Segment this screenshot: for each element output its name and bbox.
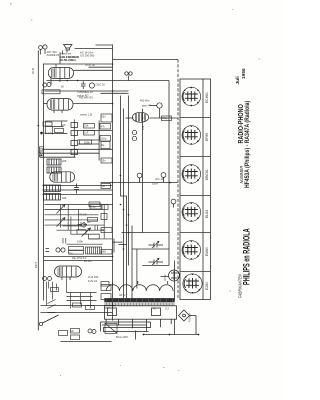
wire: bus y80 (47, 80, 170, 82)
wire: mixer out (74, 103, 113, 105)
svg-text:OSC 16: OSC 16 (96, 83, 106, 87)
tube U2 EF89 socket (182, 125, 201, 144)
small box k8 (162, 116, 172, 121)
wire: dash-dot boundary (177, 60, 179, 300)
svg-text:AARDE 25: AARDE 25 (47, 53, 60, 57)
svg-text:1nF: 1nF (84, 131, 89, 135)
tube U1 ECH81 socket (182, 87, 201, 106)
wire: V1 left lead (50, 77, 52, 86)
svg-text:EL84: EL84 (205, 210, 209, 218)
svg-text:1n5: 1n5 (62, 124, 67, 127)
wire: node stubs to AVC bus (140, 178, 174, 208)
resistor R1 box (84, 124, 95, 129)
wire: tube-column feed rail (113, 59, 179, 61)
svg-text:EZ80: EZ80 (205, 282, 209, 290)
terminal gramo b (92, 330, 96, 334)
switch and misc cluster strokes (38, 63, 200, 335)
transformer core (laminations) (104, 298, 174, 302)
node circled 6a (132, 130, 136, 134)
svg-text:100p: 100p (162, 117, 168, 120)
small box k5 (101, 184, 111, 189)
title block text (235, 68, 252, 298)
potentiometer arrow P2 (57, 218, 66, 227)
wire: right rail h (174, 261, 176, 301)
node PHILIPS en RADIOLA maker (238, 228, 252, 298)
wire: bottom link (144, 334, 199, 336)
wire: bus y256 (44, 256, 113, 258)
terminal P2 (61, 248, 65, 252)
resistor R12 box (73, 303, 82, 307)
terminal G2 (47, 83, 51, 87)
wire: top corner link (96, 44, 113, 46)
terminal phono input (39, 322, 42, 325)
wire: bus y189 left (43, 189, 113, 191)
wire: mixer left lead (44, 103, 48, 105)
svg-text:EM80: EM80 (205, 247, 209, 256)
wire: bus y312 (41, 312, 113, 314)
wire: bottom row link (61, 341, 112, 343)
node dot and label (41, 132, 43, 134)
tube U4 EL84 socket (182, 202, 201, 221)
node circled 1 (89, 83, 94, 88)
wire: top bus (44, 63, 113, 65)
ganged capacitor chain (trimmers) (71, 123, 78, 128)
svg-text:16-50-200m: 16-50-200m (60, 58, 77, 62)
resistor R5 box (100, 136, 111, 142)
capacitor C22 (95, 226, 98, 231)
wire: y143 row (78, 143, 100, 145)
capacitor C1 (trimmer) (81, 81, 86, 89)
node circled 2 (157, 103, 162, 108)
terminal gramo a (88, 329, 92, 333)
svg-text:220V: 220V (104, 307, 110, 310)
tube V1 oscillator (oval) (48, 64, 73, 82)
node circled w (82, 223, 86, 227)
svg-text:465: 465 (62, 159, 67, 163)
potentiometer arrow tone (82, 228, 91, 237)
wire: right rail g (168, 81, 170, 266)
node circled 5 (171, 199, 176, 204)
wire: stub below osc pair (128, 76, 130, 81)
wire: AF row y243.7 (67, 243, 103, 245)
coil L1 box (47, 159, 61, 165)
component boxes with values (42, 90, 172, 342)
resistor R4 box (80, 140, 92, 144)
tube socket diagrams column (182, 87, 202, 294)
wire: secondary taps down (106, 319, 171, 331)
capacitor C8 (74, 184, 79, 194)
resistor R11 box (71, 335, 80, 340)
svg-text:0,1: 0,1 (87, 220, 91, 224)
resistor R8 box (101, 250, 112, 255)
tube U6 EZ80 socket (183, 274, 202, 294)
wire: osc out (74, 69, 113, 71)
svg-text:100k: 100k (84, 141, 90, 145)
capacitor C20 (78, 222, 88, 227)
choke box hatched (86, 247, 102, 254)
svg-text:30,41: 30,41 (31, 67, 35, 74)
wire: cluster lines waveband (67, 293, 97, 309)
resistor R6 box (89, 202, 100, 207)
wire: AF cluster verticals (61, 205, 105, 239)
terminal pair Q1 (43, 277, 47, 281)
value labels (greeked) (31, 50, 192, 339)
wire: AVC bus (101, 182, 178, 184)
svg-text:5k6: 5k6 (102, 250, 107, 254)
tube V2 mixer (oval) (47, 99, 73, 114)
transformer primary winding arcs (106, 285, 173, 291)
speck (10, 3, 12, 5)
wire: heater run (174, 320, 176, 335)
wire: center rail b (121, 96, 127, 300)
wire: antenna lead (41, 49, 63, 54)
node RADIO-PHONO title (237, 101, 251, 188)
svg-text:GR: GR (70, 330, 74, 333)
wire: y130 row (78, 130, 113, 132)
transformer secondary comb winding (105, 303, 174, 306)
wire: main left rail (37, 51, 39, 331)
mains transformer T1 (101, 281, 197, 335)
small box k10 (101, 294, 111, 300)
capacitor C12 (variable) (149, 243, 164, 248)
svg-text:EF89: EF89 (205, 133, 209, 141)
tube U3 EBC81 socket (182, 164, 201, 183)
small box k6 (101, 214, 107, 220)
tube column labels (205, 92, 209, 290)
resistor R15 box (102, 205, 108, 210)
fuse stack (40, 147, 44, 153)
terminal A (39, 46, 43, 50)
resistor R2 box (84, 131, 95, 136)
wire: zigzag steps (113, 239, 127, 253)
svg-text:53n: 53n (102, 116, 107, 119)
svg-text:ECH81: ECH81 (205, 92, 209, 103)
svg-text:2x AT 20: 2x AT 20 (85, 63, 96, 67)
wire: text col divider (60, 50, 67, 64)
node circled 6b (132, 136, 136, 140)
wire: IF line left (126, 117, 134, 119)
wire: transformer output loops (101, 322, 151, 332)
tube V3 IF amp (small oval) (132, 112, 148, 122)
small box k7 (101, 228, 112, 233)
node circled 4 (161, 173, 166, 178)
coil L4 box (44, 194, 61, 201)
RF coil assemblies left side (44, 120, 91, 237)
tube V4 detector (oval) (50, 172, 75, 182)
svg-text:NUMMER: NUMMER (239, 166, 244, 184)
small box k3 (101, 142, 110, 149)
resistor R13 box (86, 306, 95, 310)
output transformer box (105, 323, 117, 333)
wire: center rail e (131, 226, 133, 300)
svg-text:Juli: Juli (235, 76, 241, 84)
wire: y139 row (78, 139, 100, 141)
svg-text:gram 47: gram 47 (142, 105, 151, 108)
node circled osc pair (125, 72, 128, 75)
wire: to circled 2 (150, 106, 160, 119)
resistor R17 box (59, 331, 68, 336)
wire: center rail d (128, 96, 130, 266)
terminal marks (46, 249, 50, 252)
terminal pair G1 (43, 83, 47, 87)
terminal pair P1 (56, 248, 60, 252)
wire: volume/tone rows (45, 205, 113, 231)
resistor R19 box (89, 234, 100, 239)
node circled 3 (137, 173, 142, 178)
small box k4 (101, 158, 112, 163)
wire: bus y185 left (43, 185, 113, 187)
svg-text:B2 450: B2 450 (84, 260, 92, 263)
svg-text:47k: 47k (101, 125, 106, 129)
svg-text:afd 310: afd 310 (44, 132, 53, 135)
wire: bus y90 (45, 90, 129, 92)
tube U5 EM80 socket (182, 240, 201, 259)
svg-text:AB 12: AB 12 (119, 294, 126, 297)
tube column frame (180, 79, 211, 300)
coil L2 box (47, 167, 61, 173)
wire: below output tube (47, 278, 67, 306)
svg-text:100k: 100k (77, 240, 83, 244)
svg-text:1956: 1956 (241, 68, 247, 79)
svg-text:TRIMMER 2n: TRIMMER 2n (77, 90, 93, 94)
svg-text:452 kHz: 452 kHz (140, 99, 150, 103)
resistor Rb box (55, 129, 64, 133)
wire: vertical x98.6 (98, 121, 100, 161)
wire: bus y194 left (43, 194, 113, 196)
svg-text:50μ: 50μ (102, 229, 107, 232)
resistor R16 box (88, 218, 98, 222)
svg-text:53SA: 53SA (152, 183, 158, 186)
wire: selector drop (190, 316, 197, 335)
resistor Ra box (43, 122, 52, 126)
small box k1 (42, 90, 60, 94)
coil L3 box (44, 185, 61, 192)
svg-text:47k: 47k (141, 125, 145, 130)
node Juli 1956 date (235, 68, 247, 85)
transformer tap label box a (108, 308, 117, 316)
potentiometer arrow P1 (57, 205, 66, 214)
wire: vertical x136.4 (136, 249, 138, 289)
svg-text:50c/s 220V: 50c/s 220V (116, 336, 128, 339)
svg-text:U412: U412 (38, 151, 42, 158)
wire: bus y260 (44, 260, 113, 262)
svg-text:0,1μ: 0,1μ (91, 205, 97, 209)
wire: y66.7 link (89, 66, 113, 68)
wire: det cluster (46, 121, 68, 135)
input terminals and antenna (39, 45, 176, 334)
wire: AF cluster extra rows (63, 226, 113, 239)
wire: antenna top link (75, 48, 113, 50)
wire: bus y305 (41, 305, 116, 307)
wire: center rail c (123, 109, 125, 300)
svg-text:weerst 2,2k: weerst 2,2k (80, 114, 93, 117)
wire: central vertical bus (112, 45, 114, 321)
resistor R9 box (101, 282, 109, 287)
small box k9 (101, 285, 111, 291)
wire: center rail f (142, 109, 144, 233)
wire: primary tap stubs (113, 281, 168, 286)
svg-text:220p: 220p (101, 137, 107, 141)
svg-text:22k: 22k (84, 124, 89, 128)
wire: bus y93 (101, 92, 129, 94)
wire: secondary left rail (43, 64, 45, 301)
wire: IF line (150, 117, 178, 119)
wire: bus y248 (132, 248, 169, 250)
svg-text:465: 465 (62, 196, 67, 200)
voltage selector diamond (179, 310, 190, 321)
resistor R18 box (77, 230, 86, 235)
svg-text:PHILIPS en RADIOLA: PHILIPS en RADIOLA (241, 228, 252, 285)
svg-text:GG 200-580: GG 200-580 (80, 54, 95, 58)
svg-text:P,Gram: P,Gram (188, 313, 192, 322)
tube V5 output (oval) (55, 266, 82, 280)
wire: bus y265 (143, 265, 170, 267)
resistor R3 box (100, 124, 111, 130)
tube V6 rectifier (small circle) (169, 270, 180, 281)
svg-text:EBC81: EBC81 (205, 169, 209, 180)
svg-text:2x B 250: 2x B 250 (88, 275, 99, 279)
svg-text:B275: B275 (34, 261, 38, 268)
wire: y152.7 row (43, 152, 100, 154)
horizontal tube envelopes in schematic (47, 64, 180, 281)
switch S1 contacts (48, 300, 56, 313)
svg-text:1M: 1M (102, 185, 105, 188)
svg-text:47k 0,5: 47k 0,5 (78, 213, 87, 217)
terminal B (43, 45, 47, 49)
svg-text:452 kHz IF1: 452 kHz IF1 (79, 96, 94, 100)
wire: rect tube lead (161, 276, 170, 278)
resistor R7a box (69, 247, 84, 251)
svg-text:4V: 4V (153, 308, 156, 311)
wire: y148.8 row (43, 148, 113, 150)
svg-text:HF453A (Philips) - RA347A (Rad: HF453A (Philips) - RA347A (Radiola) (245, 101, 251, 188)
small box k2 (101, 114, 112, 122)
wire: phono diagonal lead (43, 315, 59, 323)
terminal M1 (39, 153, 43, 157)
svg-text:25n: 25n (102, 160, 107, 163)
svg-text:6,3V 2A: 6,3V 2A (88, 279, 97, 283)
resistor R10 box (71, 329, 80, 334)
transformer secondary box (105, 306, 177, 319)
capacitor C13 (variable) (149, 260, 164, 265)
wire: y156.7 row (43, 156, 76, 158)
antenna symbol (64, 45, 73, 51)
resistor R7b box (69, 251, 84, 255)
svg-text:AVC 1M: AVC 1M (155, 178, 164, 181)
capacitor C21 (63, 238, 66, 244)
resistor R20 box (51, 288, 59, 292)
wire: bottom stub (135, 331, 137, 340)
resistor R14 box (90, 204, 101, 209)
svg-text:50n: 50n (69, 253, 74, 256)
terminal Q2 (48, 277, 52, 281)
wire: bus y232 (122, 232, 170, 234)
svg-text:UY42: UY42 (163, 274, 167, 281)
transformer tap label box b (152, 308, 161, 316)
